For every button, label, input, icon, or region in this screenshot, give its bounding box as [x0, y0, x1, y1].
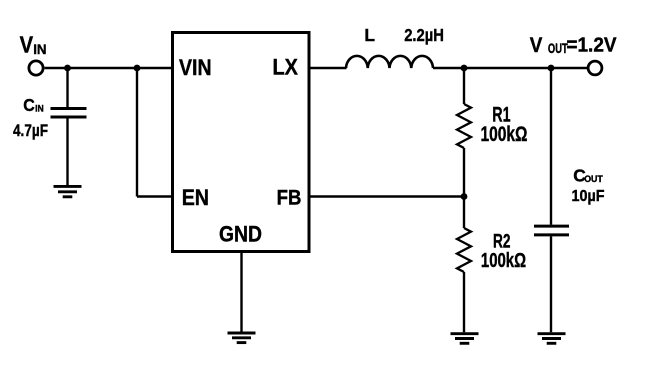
capacitor CIN — [51, 68, 87, 185]
ground GND pin — [228, 333, 256, 343]
svg-text:10µF: 10µF — [572, 188, 605, 205]
node FB junction — [461, 193, 468, 200]
wire FB — [309, 195, 464, 197]
svg-text:IN: IN — [33, 42, 46, 58]
capacitor COUT — [534, 68, 569, 332]
node COUT junction — [548, 65, 555, 72]
svg-text:V: V — [530, 34, 543, 57]
svg-text:EN: EN — [182, 185, 209, 210]
label VOUT=1.2V — [530, 34, 617, 57]
svg-text:VIN: VIN — [179, 55, 212, 80]
wire inductor to VOUT — [433, 67, 589, 69]
wire EN branch — [137, 68, 172, 197]
svg-text:2.2µH: 2.2µH — [404, 25, 444, 45]
wire GND pin — [240, 252, 242, 332]
node LX output junction — [461, 65, 468, 72]
ground R2 — [451, 334, 479, 344]
label VIN — [20, 32, 47, 58]
terminal VIN — [29, 61, 43, 75]
svg-text:100kΩ: 100kΩ — [481, 122, 528, 146]
node input junction at EN branch — [134, 65, 141, 72]
svg-text:L: L — [364, 25, 375, 45]
svg-text:FB: FB — [277, 184, 302, 209]
wire LX to inductor — [309, 67, 347, 69]
svg-text:4.7µF: 4.7µF — [13, 121, 48, 140]
ground CIN — [54, 186, 82, 196]
svg-text:OUT: OUT — [548, 41, 568, 56]
label CIN — [23, 95, 44, 115]
IC U1 regulator box — [173, 33, 310, 252]
svg-text:LX: LX — [273, 55, 298, 80]
svg-text:OUT: OUT — [584, 173, 603, 184]
ground COUT — [538, 334, 566, 344]
inductor L — [346, 56, 433, 68]
terminal VOUT — [588, 61, 602, 75]
svg-text:GND: GND — [219, 222, 262, 247]
resistor R2 — [457, 197, 471, 333]
svg-text:=1.2V: =1.2V — [566, 35, 617, 57]
resistor R1 — [457, 68, 471, 197]
node input junction at CIN — [64, 65, 71, 72]
svg-text:IN: IN — [35, 103, 44, 113]
svg-text:100kΩ: 100kΩ — [481, 250, 526, 272]
label COUT — [573, 165, 603, 185]
svg-text:V: V — [20, 32, 33, 58]
wire input rail — [45, 67, 172, 69]
svg-text:C: C — [23, 95, 35, 115]
